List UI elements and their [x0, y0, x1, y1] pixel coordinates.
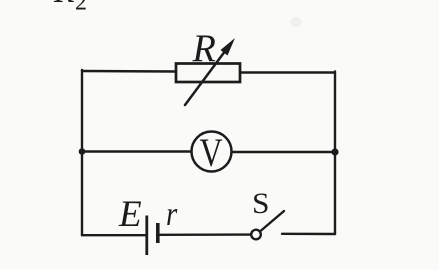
node: right junction dot	[331, 148, 338, 155]
wire: bottom right horizontal (switch to right corner)	[282, 233, 335, 236]
switch S: lever	[261, 211, 285, 231]
wire: middle left horizontal	[82, 150, 192, 152]
wire: middle right horizontal	[232, 151, 336, 153]
svg-text:V: V	[200, 131, 223, 175]
battery E: long plate	[145, 216, 148, 256]
wire: bottom left horizontal	[82, 234, 146, 236]
wire: top left horizontal	[82, 70, 176, 73]
resistor R arrowhead	[221, 38, 236, 56]
node: left junction dot	[79, 148, 86, 155]
voltmeter U (circle)	[192, 132, 232, 172]
svg-text:E: E	[118, 194, 142, 235]
faint smudge	[290, 17, 302, 27]
switch S: pivot circle	[251, 230, 261, 240]
battery E: short plate	[156, 223, 160, 243]
resistor R (variable) box	[176, 64, 240, 83]
wire: left vertical	[81, 70, 83, 235]
svg-text:R: R	[192, 28, 216, 70]
wire: top right horizontal	[240, 71, 335, 73]
svg-text:r: r	[166, 195, 178, 233]
svg-text:R: R	[53, 0, 74, 10]
svg-text:2: 2	[75, 0, 87, 16]
wire: bottom middle horizontal (battery to switch)	[158, 233, 251, 236]
resistor R arrow shaft	[185, 47, 229, 106]
wire: right vertical	[334, 72, 336, 235]
svg-text:S: S	[252, 187, 270, 220]
